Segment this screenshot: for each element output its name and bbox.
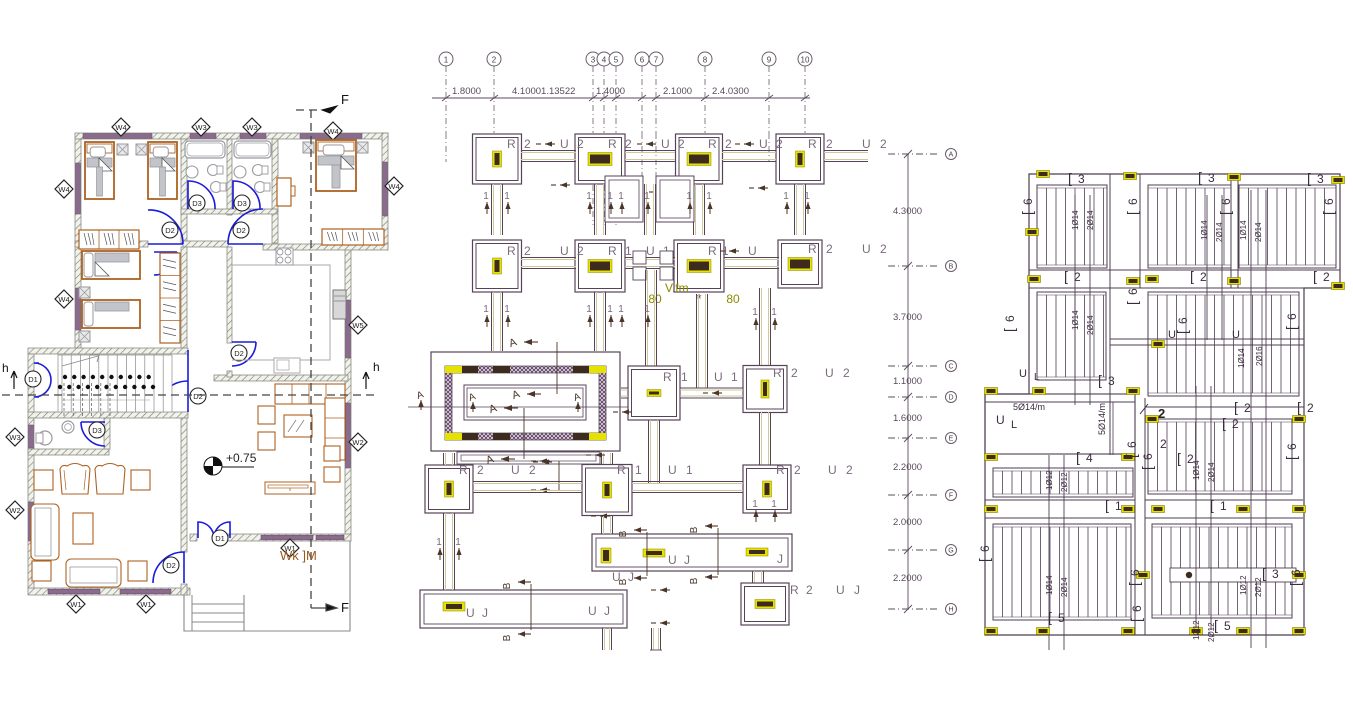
svg-text:W1: W1 [140,600,151,609]
svg-text:1: 1 [436,537,442,548]
footing B1 grid2/B [473,240,522,292]
toilet bottom wall [28,449,109,455]
section mark 1 [774,510,776,522]
beam B3-Cbeam [696,294,698,388]
svg-text:6: 6 [1128,569,1142,576]
svg-text:B: B [618,530,629,537]
left exterior wall upper [75,139,81,348]
svg-text:2.0000: 2.0000 [893,517,922,528]
beam ring-F2 [601,453,603,465]
svg-text:[: [ [1287,582,1303,586]
corner sofa right [325,398,345,460]
column mark [1028,276,1041,283]
window tag W2 [349,433,367,451]
svg-text:1.8000: 1.8000 [452,86,481,97]
strip below ring [457,452,600,464]
svg-text:9: 9 [767,56,772,65]
bed 1 [85,142,114,199]
svg-text:1: 1 [706,191,712,202]
svg-text:[: [ [1313,268,1317,284]
porch steps [192,603,244,605]
svg-text:1: 1 [607,191,613,202]
window tag W5 [349,316,367,334]
door tag D2 [231,345,247,361]
svg-text:6: 6 [1289,569,1303,576]
column mark [1293,506,1306,513]
svg-text:U: U [748,244,759,258]
mid wall c [263,244,388,250]
column mark [1037,171,1050,178]
beam A3-A4 [722,150,776,152]
section mark 1 [458,548,460,560]
footing F2 R1U1 [582,465,632,516]
svg-text:5: 5 [1058,611,1065,625]
beam B4-C4 [759,288,761,366]
beam A2-A3 [625,150,675,152]
wc bath1 [208,165,219,176]
beam A4-right [824,150,868,152]
svg-text:U: U [1232,329,1240,341]
living armchair 1 [258,406,275,424]
divider row2 [1029,269,1340,271]
side table sit1 [34,470,53,490]
svg-text:R: R [773,366,784,380]
footing C3 R1U1 [628,366,680,420]
svg-text:2.2000: 2.2000 [893,462,922,473]
wardrobe bedroom2 [160,253,180,343]
svg-text:[: [ [1320,211,1336,215]
grid bubble 3 [586,52,600,66]
column mark [1127,278,1140,285]
section mark 1 [486,202,488,214]
divider x1113 in stair box [1112,402,1114,455]
svg-text:2: 2 [1232,417,1239,431]
svg-text:[: [ [1076,449,1080,465]
svg-text:A: A [949,152,954,159]
strip column 3 [746,548,768,556]
column mark [1293,416,1306,423]
svg-text:B: B [502,634,513,641]
svg-text:D2: D2 [165,226,175,235]
svg-text:[: [ [1198,169,1202,185]
slash mark [1140,404,1148,414]
window W4 right [383,162,388,216]
svg-text:6: 6 [978,545,992,552]
svg-text:B: B [949,264,954,271]
tv unit [265,482,315,494]
beam ring-F1 [443,453,445,465]
svg-text:B: B [689,526,700,533]
svg-text:U: U [1019,368,1027,380]
svg-text:1: 1 [586,304,592,315]
divider y500-518 band lower [985,499,1135,501]
column mark [1127,388,1140,395]
svg-text:[: [ [1190,268,1194,284]
svg-text:U: U [862,137,873,151]
ring inner pit [464,385,586,420]
wc bath2 [253,165,264,176]
svg-text:2: 2 [776,137,785,151]
grid bubble 4 [597,52,611,66]
svg-text:1: 1 [618,304,624,315]
door tag D2 [162,222,178,238]
svg-text:2: 2 [477,463,486,477]
svg-text:2Ø12: 2Ø12 [1254,577,1263,597]
divider x1140 upper [1139,174,1141,288]
window W1 living [261,535,313,540]
row grid B [888,265,940,267]
window W2 sitting [29,502,34,541]
strip footing lower [420,590,627,628]
beam A3-B3 [693,184,695,235]
column mark [985,628,998,635]
window tag W3 [6,428,24,446]
door tag D2 [163,557,179,573]
svg-text:4: 4 [602,56,607,65]
footing A3 grid8/A [676,134,723,184]
svg-text:1Ø14: 1Ø14 [1045,575,1054,595]
svg-text:3.7000: 3.7000 [893,312,922,323]
svg-text:5Ø14/m: 5Ø14/m [1013,402,1045,412]
svg-text:2: 2 [1200,270,1207,284]
living top wall [214,375,348,381]
column mark [1332,283,1345,290]
svg-text:1: 1 [681,370,690,384]
section B arrow [705,525,718,527]
column mark [1124,173,1137,180]
side table [136,144,147,155]
window tag W1 [137,595,155,613]
footing A4 grid10/A [776,134,824,184]
svg-text:80: 80 [726,292,740,306]
svg-text:U: U [836,583,847,597]
sofa vertical [31,504,59,560]
svg-text:D: D [948,395,953,402]
wall bath1/bath2 [227,139,232,215]
kitchen sink [274,358,300,373]
svg-text:1: 1 [644,304,650,315]
section cut arrow [545,143,555,145]
fridge [333,290,346,319]
section mark 1 [621,315,623,327]
svg-text:[: [ [1105,497,1109,513]
wall bed2/bath1 [181,139,187,243]
window W3 bath1 [190,134,216,139]
panel B1 hatch [1037,292,1106,380]
strip column 2 [643,549,665,557]
section line h-h horizontal [2,394,375,396]
section F bottom arrow [311,604,337,611]
svg-text:2Ø14: 2Ø14 [1086,210,1095,230]
section A arrow [524,341,538,343]
svg-text:2: 2 [725,137,734,151]
svg-text:2: 2 [1074,270,1081,284]
window W4 top-right [300,134,362,139]
window tag W4 [55,180,73,198]
window W2 right [346,403,351,468]
svg-text:2: 2 [806,583,815,597]
section cut arrow [560,184,570,186]
section cut arrow [600,515,610,517]
column mark [1228,174,1241,181]
svg-text:W1: W1 [70,600,81,609]
column mark [1228,278,1241,285]
section mark 1 [610,315,612,327]
door D2 bedroom1 leaf+arc [148,210,183,244]
column mark [985,454,998,461]
svg-text:1Ø14: 1Ø14 [1071,310,1080,330]
svg-text:[: [ [1283,456,1299,460]
svg-text:3: 3 [1272,567,1279,581]
section mark 1 [807,202,809,214]
beam F1-strip2 [443,513,445,590]
living bottom wall stub L [190,534,197,541]
svg-text:4.10001.13522: 4.10001.13522 [512,86,575,97]
column mark [1332,177,1345,184]
svg-text:10: 10 [801,56,810,65]
svg-text:6: 6 [640,56,645,65]
window tag W2 [6,501,24,519]
extra grid stems [445,133,447,162]
column mark [1152,506,1165,513]
grid bubble 7 [649,52,663,66]
svg-text:[: [ [1123,454,1139,458]
svg-text:1Ø12: 1Ø12 [1239,575,1248,595]
rebar long lines left pair [1074,195,1076,405]
section A up arrow [633,402,635,412]
svg-text:D2: D2 [234,349,244,358]
svg-text:3: 3 [1208,171,1215,185]
svg-text:1: 1 [783,191,789,202]
svg-text:3: 3 [1317,172,1324,186]
svg-text:1Ø12: 1Ø12 [1045,470,1054,490]
svg-text:[: [ [1177,450,1181,466]
svg-text:D3: D3 [192,199,202,208]
door tag D3 [189,195,205,211]
svg-text:U: U [825,366,836,380]
beam C3-down [648,420,650,483]
section cut arrow [646,143,656,145]
door D2 sitting leaf+arc [153,552,184,583]
beam mid 6-7 [644,184,646,235]
row grid F [888,494,940,496]
svg-text:2: 2 [625,137,634,151]
footing F1 R2U2 [425,465,473,513]
beam A2-B2 [594,184,596,235]
svg-text:5: 5 [614,56,619,65]
svg-text:[: [ [1297,399,1301,415]
section mark 1 [610,202,612,214]
window W1 sitting a [48,589,100,594]
living side table 2 [324,467,340,482]
svg-text:R: R [790,583,801,597]
svg-text:F: F [341,600,349,615]
section A arrow [527,393,541,395]
window tag W4 [324,122,342,140]
section mark 1 [486,315,488,327]
svg-text:2Ø16: 2Ø16 [1255,346,1264,366]
section mark 1 [507,202,509,214]
svg-text:B: B [689,577,700,584]
svg-text:2: 2 [1307,401,1314,415]
svg-text:U: U [862,242,873,256]
bed 5 double [316,140,356,191]
washbasin bath1 [186,166,198,178]
beam C4-F3 [759,412,761,465]
section cut arrow [729,250,739,252]
svg-text:2.1000: 2.1000 [663,86,692,97]
wall bed2 right [181,247,187,348]
svg-text:1: 1 [1115,499,1122,513]
grid bubble 1 [439,52,453,66]
svg-text:1: 1 [752,499,758,510]
svg-text:1: 1 [483,191,489,202]
level datum +0.75 [204,457,222,475]
panel B2 hatch [1148,292,1299,396]
svg-text:D3: D3 [237,199,247,208]
A leader stem center [523,408,525,459]
svg-text:G: G [948,548,953,555]
svg-text:[: [ [1139,466,1155,470]
svg-text:F: F [949,493,953,500]
window W4 top-left [83,134,152,139]
svg-text:3: 3 [591,56,596,65]
door D3 bath1 leaf+arc [188,181,215,209]
section mark 1 [709,202,711,214]
svg-text:1: 1 [504,191,510,202]
door tag D1 [25,371,41,387]
row grid C [888,365,940,367]
svg-text:6: 6 [1130,605,1144,612]
wardrobe bedroom1 [79,230,139,249]
svg-text:2: 2 [794,463,803,477]
svg-text:R: R [808,242,819,256]
section mark 1 [507,315,509,327]
beam C3-C4 [680,387,743,389]
grid bubble 2 [487,52,501,66]
svg-text:[: [ [1068,170,1072,186]
svg-text:R: R [663,370,674,384]
svg-text:2.4.0300: 2.4.0300 [712,86,749,97]
svg-text:1: 1 [625,244,634,258]
column mark [1122,454,1135,461]
strip column 1 vertical [601,548,611,563]
door tag D1 [212,530,228,546]
svg-text:[: [ [1124,301,1140,305]
window tag W3 [243,118,261,136]
section mark 1 [647,315,649,327]
footing A1 grid2/A [473,134,522,184]
toilet sink [62,421,74,433]
wall bath2/bed3 [272,139,278,243]
svg-text:2.2000: 2.2000 [893,573,922,584]
svg-text:C: C [948,364,953,371]
footing A2 grid4/A [575,134,625,184]
svg-text:R: R [708,244,719,258]
grid bubble 8 [698,52,712,66]
column mark [1037,628,1050,635]
bed 4 horizontal [82,300,140,328]
row grid D [888,396,940,398]
door D3 toilet leaf+arc [81,422,105,446]
window tag W4 [112,118,130,136]
svg-text:H: H [948,607,953,614]
side table [303,142,314,153]
section mark 1 [589,202,591,214]
svg-text:D2: D2 [193,392,203,401]
window W1 sitting b [120,589,171,594]
svg-text:[: [ [1283,326,1299,330]
beam strip1-H4 [752,571,754,583]
panel C2 hatch [1148,419,1292,494]
svg-text:1: 1 [731,370,740,384]
svg-text:1: 1 [771,499,777,510]
footing C4 R2U2 [743,366,787,413]
sitting/living divider stub [181,584,187,595]
svg-text:6: 6 [1285,443,1299,450]
svg-text:W4: W4 [115,123,126,132]
window tag W4 [55,290,73,308]
row grid E [888,437,940,439]
svg-text:[: [ [1174,330,1190,334]
stair hall left wall [28,354,34,412]
divider y407 right lower band [1145,406,1304,408]
svg-text:R: R [459,463,470,477]
svg-text:1: 1 [644,191,650,202]
svg-text:6: 6 [1126,288,1140,295]
column mark [1152,341,1165,348]
svg-text:V.fm: V.fm [665,281,689,295]
beam A1-B1 [491,184,493,235]
stair dashed tread lines [63,383,65,418]
beam B2-ring [594,292,596,351]
svg-text:U J: U J [668,553,692,567]
panel A3 hatch [1239,185,1336,268]
row grid vertical line [907,154,909,609]
column mark [1122,628,1135,635]
section cut arrow [758,187,768,189]
kitchen counter [232,265,330,360]
left exterior wall lower [28,418,34,590]
grid bubble 10 [798,52,812,66]
svg-text:R: R [808,137,819,151]
stair slab box [985,394,1135,454]
svg-text:R: R [776,463,787,477]
panel C1 hatch [993,468,1133,497]
svg-text:2: 2 [826,242,835,256]
B leader mid [646,532,648,576]
svg-text:1: 1 [607,304,613,315]
svg-text:1: 1 [686,463,695,477]
section B arrow [518,633,531,635]
armchair 2 [95,464,125,495]
svg-text:[: [ [1064,268,1068,284]
svg-text:2: 2 [826,137,835,151]
section mark 1 [774,318,776,330]
svg-text:2: 2 [1244,401,1251,415]
porch outline [184,541,350,631]
svg-text:1: 1 [444,56,449,65]
svg-text:1: 1 [455,537,461,548]
divider y454-462 [985,453,1135,455]
svg-text:1: 1 [635,463,644,477]
svg-text:1: 1 [686,191,692,202]
door tag D2 [190,388,206,404]
svg-text:Wk ]M: Wk ]M [280,548,317,563]
beam B1-B2 [521,257,576,259]
section cut arrow [660,589,670,591]
svg-text:80: 80 [648,292,662,306]
